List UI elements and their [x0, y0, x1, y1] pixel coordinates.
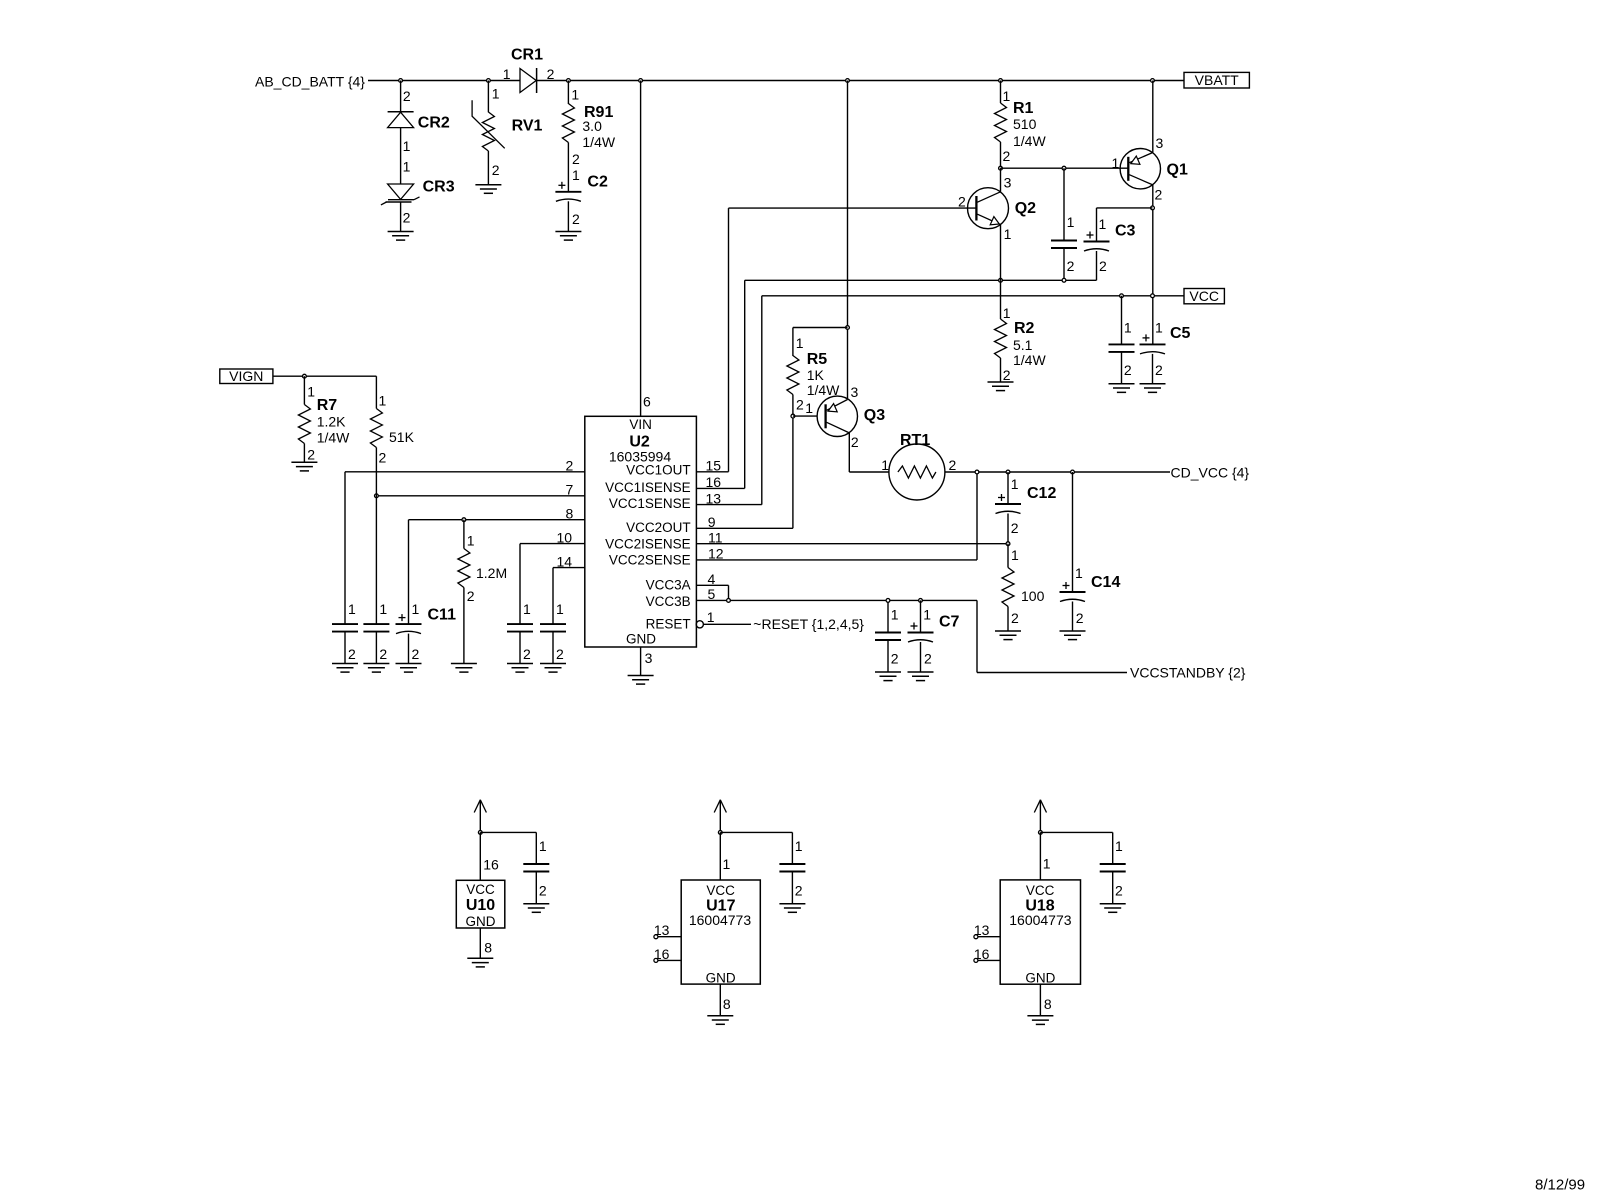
junction on VBATT rail: [399, 79, 403, 83]
wire U18 pin 13: [974, 935, 978, 939]
svg-text:2: 2: [1124, 362, 1132, 378]
wire cap (C3 companion) pin1 lead: [1063, 168, 1065, 240]
svg-text:16: 16: [483, 856, 499, 872]
svg-text:VCC: VCC: [706, 883, 735, 898]
svg-text:C2: C2: [587, 174, 608, 191]
junction U10 VCC node: [478, 831, 482, 835]
capacitor (decoupling, plain): [363, 623, 389, 625]
svg-text:1/4W: 1/4W: [582, 134, 615, 150]
resistor R91: [567, 81, 569, 105]
svg-text:12: 12: [708, 546, 724, 562]
svg-text:13: 13: [654, 922, 670, 938]
wire C5 pin2 lead: [1152, 354, 1154, 384]
svg-text:510: 510: [1013, 116, 1037, 132]
svg-text:16: 16: [654, 946, 670, 962]
junction cap bottom tap: [1062, 278, 1066, 282]
svg-text:1/4W: 1/4W: [1013, 133, 1046, 149]
junction Q2 emitter: [999, 278, 1003, 282]
wire U10 pin 16: [479, 832, 481, 880]
junction 1.2M tap on pin 8 wire: [462, 518, 466, 522]
wire U2 pin 11 (VCC2ISENSE to C12 node): [696, 543, 1008, 545]
wire U2 pin 4 (VCC3A): [696, 584, 728, 586]
wire Q2 base: [729, 207, 977, 209]
svg-text:C11: C11: [428, 607, 457, 624]
svg-text:1: 1: [1155, 320, 1163, 336]
svg-text:Q3: Q3: [864, 407, 885, 424]
capacitor C7 companion (plain): [875, 632, 901, 634]
svg-text:2: 2: [1099, 258, 1107, 274]
svg-text:1: 1: [523, 601, 531, 617]
ground below U10: [467, 957, 493, 959]
wire U10 pin 8: [479, 928, 481, 958]
capacitor C7 (polarized): [908, 632, 934, 634]
ground below R2: [988, 381, 1014, 383]
junction U18 VCC node: [1039, 831, 1043, 835]
svg-text:2: 2: [1067, 258, 1075, 274]
ground below RV1: [475, 184, 501, 186]
svg-text:CR1: CR1: [511, 47, 543, 64]
svg-text:5: 5: [708, 586, 716, 602]
svg-text:~RESET {1,2,4,5}: ~RESET {1,2,4,5}: [753, 616, 864, 632]
wire RESET pin with bubble: [696, 621, 703, 628]
svg-text:8: 8: [723, 996, 731, 1012]
svg-text:2: 2: [467, 588, 475, 604]
svg-text:1: 1: [1099, 216, 1107, 232]
capacitor C11 (polarized): [396, 623, 422, 625]
wire to U17 decoupling cap: [720, 831, 792, 833]
svg-text:16: 16: [974, 946, 990, 962]
resistor R5: [793, 327, 848, 329]
svg-text:1: 1: [1067, 214, 1075, 230]
svg-text:1: 1: [467, 532, 475, 548]
node VCC box: [1184, 289, 1224, 304]
ground below U18 cap: [1100, 903, 1126, 905]
node VIGN box: [220, 369, 273, 384]
svg-text:C7: C7: [939, 614, 960, 631]
svg-text:1: 1: [1075, 565, 1083, 581]
diode CR2: [388, 111, 414, 113]
ground below U17 cap: [779, 903, 805, 905]
svg-text:2: 2: [1003, 367, 1011, 383]
junction cap tap on Q1 base wire: [1062, 166, 1066, 170]
svg-text:GND: GND: [626, 632, 656, 647]
svg-text:1: 1: [805, 400, 813, 416]
junction on VBATT rail: [999, 79, 1003, 83]
capacitor C12 (polarized): [995, 503, 1021, 505]
ground below C5 plain: [1109, 383, 1135, 385]
svg-text:2: 2: [1011, 610, 1019, 626]
transistor Q3 (PNP): [817, 396, 857, 436]
svg-text:1: 1: [1004, 226, 1012, 242]
svg-text:1/4W: 1/4W: [317, 430, 350, 446]
wire U2 pin 14: [553, 567, 585, 569]
svg-text:1: 1: [796, 335, 804, 351]
svg-text:2: 2: [348, 646, 356, 662]
wire AB_CD_BATT rail left segment: [368, 80, 520, 82]
junction pin4/pin5 tie: [727, 599, 731, 603]
ground below C7 plain: [875, 671, 901, 673]
ground below 100 ohm: [995, 630, 1021, 632]
wire U18 pin 1: [1039, 832, 1041, 880]
wire U17 pin 1: [719, 832, 721, 880]
ground below U2: [628, 675, 654, 677]
capacitor C3: [1084, 241, 1110, 243]
svg-text:VIN: VIN: [629, 417, 652, 432]
svg-text:VBATT: VBATT: [1195, 72, 1240, 88]
wire U17 pin 13: [654, 935, 658, 939]
capacitor U17 decoupling: [779, 863, 805, 865]
ground below cap: [507, 663, 533, 665]
svg-text:1: 1: [707, 609, 715, 625]
ground below C5: [1140, 383, 1166, 385]
wire AB_CD_BATT rail right segment to VBATT: [537, 80, 1184, 82]
wire VIN line (rail to U2 pin 6): [640, 81, 642, 417]
wire cap pin2 lead: [375, 632, 377, 664]
svg-text:1K: 1K: [807, 367, 825, 383]
svg-text:5.1: 5.1: [1013, 337, 1033, 353]
svg-text:Q2: Q2: [1015, 200, 1036, 217]
wire U2 pin 2: [345, 471, 585, 473]
svg-text:CD_VCC {4}: CD_VCC {4}: [1171, 465, 1250, 481]
wire U2 pin 5 (VCC3B to VCCSTANDBY): [696, 599, 977, 601]
svg-text:2: 2: [795, 883, 803, 899]
svg-text:2: 2: [891, 651, 899, 667]
junction on VBATT rail: [1151, 79, 1155, 83]
ground below U17: [707, 1015, 733, 1017]
svg-text:2: 2: [572, 211, 580, 227]
svg-text:2: 2: [1003, 148, 1011, 164]
wire U2 pin 12 (VCC2SENSE to CD_VCC): [696, 559, 977, 561]
wire C14 pin1 lead: [1072, 472, 1074, 592]
svg-text:2: 2: [403, 210, 411, 226]
junction C5 polarized tap: [1151, 294, 1155, 298]
wire U17 pin 8: [719, 984, 721, 1016]
svg-text:1: 1: [379, 392, 387, 408]
wire Q3 base: [793, 415, 817, 417]
svg-text:VCCSTANDBY {2}: VCCSTANDBY {2}: [1130, 665, 1246, 681]
wire rail to R5/Q3 collector: [847, 81, 849, 399]
svg-text:8: 8: [1044, 996, 1052, 1012]
IC U17 body: [681, 880, 760, 984]
svg-text:2: 2: [556, 646, 564, 662]
wire C7 pin1 lead: [920, 600, 922, 632]
power symbol VCC arrow (U17): [714, 800, 720, 813]
capacitor (decoupling, plain): [540, 623, 566, 625]
svg-text:C5: C5: [1170, 325, 1191, 342]
svg-text:2: 2: [379, 646, 387, 662]
wire cap pin2 lead: [1112, 872, 1114, 904]
svg-text:3: 3: [1156, 135, 1164, 151]
svg-text:2: 2: [539, 883, 547, 899]
IC U2 body: [585, 416, 697, 647]
svg-text:C14: C14: [1091, 574, 1120, 591]
resistor 1.2M: [463, 520, 465, 549]
wire U18 pin 16: [974, 958, 978, 962]
wire cap pin2 lead: [344, 632, 346, 664]
svg-text:GND: GND: [466, 914, 496, 929]
wire cap pin2 lead: [791, 872, 793, 904]
wire C7 pin2 lead: [920, 642, 922, 672]
svg-text:4: 4: [708, 571, 716, 587]
wire Q2 emitter lead: [1000, 225, 1002, 281]
junction on VBATT rail: [846, 79, 850, 83]
svg-text:VIGN: VIGN: [229, 368, 263, 384]
wire VCC3B node to VCCSTANDBY: [976, 600, 978, 672]
svg-text:1: 1: [348, 601, 356, 617]
wire U17 pin 16: [654, 958, 658, 962]
svg-text:3: 3: [1004, 174, 1012, 190]
svg-text:1/4W: 1/4W: [1013, 352, 1046, 368]
svg-text:2: 2: [796, 397, 804, 413]
svg-text:1: 1: [891, 607, 899, 623]
capacitor U18 decoupling: [1100, 863, 1126, 865]
svg-text:2: 2: [523, 646, 531, 662]
svg-text:VCC3B: VCC3B: [646, 594, 691, 609]
wire R1 bottom to Q1 base node: [1000, 142, 1002, 168]
wire VIGN to 51K top: [273, 375, 377, 377]
wire U2 pin 13 (VCC1SENSE to VCC): [696, 504, 761, 506]
svg-text:1: 1: [1003, 305, 1011, 321]
svg-text:RV1: RV1: [512, 118, 543, 135]
ground below R7: [291, 461, 317, 463]
ground below cap: [363, 663, 389, 665]
svg-text:14: 14: [557, 553, 573, 569]
wire C12 pin2 to resistor node: [1007, 514, 1009, 544]
svg-text:2: 2: [1155, 362, 1163, 378]
svg-text:1: 1: [571, 86, 579, 102]
svg-text:R5: R5: [807, 351, 828, 368]
svg-text:9: 9: [708, 514, 716, 530]
svg-text:1: 1: [881, 457, 889, 473]
junction C12 tap: [1006, 470, 1010, 474]
svg-text:13: 13: [706, 490, 722, 506]
wire Q2 collector lead: [1000, 168, 1002, 192]
svg-text:1: 1: [1124, 320, 1132, 336]
transistor Q1 (PNP): [1120, 149, 1160, 189]
svg-text:RT1: RT1: [900, 432, 930, 449]
wire R91-C2: [567, 143, 569, 192]
svg-text:2: 2: [1155, 187, 1163, 203]
ground below C7: [908, 671, 934, 673]
wire U2 GND pin 3: [640, 647, 642, 676]
wire Q1 pin2 down (emitter line): [1152, 185, 1154, 345]
ground below C2: [555, 231, 581, 233]
svg-text:8/12/99: 8/12/99: [1535, 1177, 1585, 1194]
wire C14 pin2 lead: [1072, 602, 1074, 632]
svg-text:15: 15: [706, 458, 722, 474]
svg-text:2: 2: [1011, 520, 1019, 536]
svg-text:VCC: VCC: [466, 882, 495, 897]
svg-text:CR2: CR2: [418, 115, 450, 132]
svg-text:VCC2OUT: VCC2OUT: [626, 520, 691, 535]
svg-text:GND: GND: [1025, 971, 1055, 986]
ground below CR3: [388, 231, 414, 233]
svg-text:R1: R1: [1013, 100, 1034, 117]
svg-text:2: 2: [547, 66, 555, 82]
wire C5 plain pin1 lead: [1121, 296, 1123, 345]
wire C3 to Q1 pin2 line: [1097, 207, 1153, 209]
svg-text:2: 2: [566, 458, 574, 474]
ground below U18: [1027, 1015, 1053, 1017]
wire Q1 pin3 to rail: [1152, 81, 1154, 153]
svg-text:U10: U10: [466, 897, 495, 914]
capacitor C2: [555, 191, 581, 193]
svg-text:2: 2: [412, 646, 420, 662]
svg-text:VCC2ISENSE: VCC2ISENSE: [605, 536, 691, 551]
capacitor C5 companion (plain): [1109, 343, 1135, 345]
svg-text:1: 1: [723, 856, 731, 872]
junction R1 bottom / Q2 collector / Q1 base: [999, 166, 1003, 170]
svg-text:R7: R7: [317, 397, 338, 414]
wire U2 pin 15 (VCC1OUT to Q2 base): [696, 471, 728, 473]
svg-text:Q1: Q1: [1167, 162, 1188, 179]
wire R5 pin2 lead: [792, 395, 794, 417]
ground below cap: [540, 663, 566, 665]
wire R2 pin2 lead: [1000, 358, 1002, 382]
ground below C11: [396, 663, 422, 665]
svg-text:1: 1: [379, 601, 387, 617]
junction C12 bottom / pin 11: [1006, 542, 1010, 546]
wire cap pin2 lead: [535, 872, 537, 904]
svg-text:2: 2: [572, 151, 580, 167]
wire Q3 emitter to RT1: [848, 433, 850, 472]
svg-text:R2: R2: [1014, 320, 1035, 337]
capacitor C14 (polarized): [1060, 591, 1086, 593]
wire CR2-CR3: [400, 128, 402, 184]
transistor Q2 (NPN): [968, 188, 1009, 229]
resistor R2: [1000, 280, 1002, 319]
junction C14 tap: [1071, 470, 1075, 474]
junction 51K bottom / pin 7: [375, 494, 379, 498]
svg-text:1: 1: [307, 384, 315, 400]
wire 1.2M pin2 lead: [463, 588, 465, 664]
capacitor U10 decoupling: [523, 863, 549, 865]
svg-text:3.0: 3.0: [582, 118, 602, 134]
IC U18 body: [1000, 880, 1080, 984]
svg-text:1: 1: [1011, 547, 1019, 563]
wire U2 pin 8: [409, 519, 585, 521]
wire VCC net: [762, 295, 1184, 297]
wire Q1 base: [1001, 167, 1129, 169]
wire cap pin2 lead: [552, 632, 554, 664]
diode CR1: [520, 69, 536, 93]
svg-text:C3: C3: [1115, 223, 1136, 240]
svg-text:VCC1OUT: VCC1OUT: [626, 463, 691, 478]
junction on VBATT rail: [639, 79, 643, 83]
svg-text:VCC1SENSE: VCC1SENSE: [609, 496, 691, 511]
svg-text:1: 1: [795, 838, 803, 854]
svg-text:1: 1: [403, 138, 411, 154]
junction R5 bottom / Q3 base / pin 9: [791, 414, 795, 418]
junction R7 tap: [303, 374, 307, 378]
svg-text:1: 1: [503, 66, 511, 82]
svg-text:3: 3: [851, 384, 859, 400]
power symbol VCC arrow (U10): [474, 800, 480, 813]
wire RT1 to CD_VCC: [945, 471, 1170, 473]
svg-text:1.2K: 1.2K: [317, 413, 346, 429]
diode CR3 (zener): [388, 184, 414, 199]
wire C7 plain pin2 lead: [887, 640, 889, 672]
junction C5 plain tap: [1120, 294, 1124, 298]
svg-text:2: 2: [949, 457, 957, 473]
svg-text:7: 7: [566, 482, 574, 498]
svg-text:2: 2: [1076, 610, 1084, 626]
wire R7 pin2 lead: [303, 444, 305, 463]
node VBATT box: [1184, 72, 1249, 88]
svg-text:16: 16: [706, 474, 722, 490]
svg-text:1: 1: [1115, 838, 1123, 854]
resistor 100: [1007, 544, 1009, 568]
svg-text:1: 1: [1112, 155, 1120, 171]
svg-text:1: 1: [492, 85, 500, 101]
svg-text:6: 6: [643, 394, 651, 410]
wire U18 pin 8: [1039, 984, 1041, 1016]
svg-text:GND: GND: [706, 971, 736, 986]
svg-text:1: 1: [923, 607, 931, 623]
wire C2 pin2 lead: [567, 201, 569, 231]
svg-text:16004773: 16004773: [1009, 912, 1072, 928]
svg-text:13: 13: [974, 922, 990, 938]
power symbol VCC arrow (U18): [1034, 800, 1040, 813]
capacitor (decoupling, plain): [507, 623, 533, 625]
varistor RV1: [482, 112, 494, 151]
wire C11 pin2 lead: [408, 634, 410, 664]
wire RV1 pin2 lead: [487, 151, 489, 185]
svg-text:2: 2: [1115, 883, 1123, 899]
svg-text:CR3: CR3: [423, 179, 455, 196]
svg-text:2: 2: [307, 446, 315, 462]
svg-text:2: 2: [403, 88, 411, 104]
junction pin12 riser tap: [975, 470, 979, 474]
wire Q2 emitter node (pin16 riser to C3 bottom): [745, 279, 1097, 281]
svg-text:8: 8: [566, 506, 574, 522]
svg-text:2: 2: [379, 449, 387, 465]
junction on VBATT rail: [487, 79, 491, 83]
wire U2 pin 16 (VCC1ISENSE to Q2 emitter node): [696, 487, 744, 489]
svg-text:1: 1: [403, 159, 411, 175]
svg-text:RESET: RESET: [646, 617, 691, 632]
ground below cap: [332, 663, 358, 665]
junction on VBATT rail: [567, 79, 571, 83]
svg-text:100: 100: [1021, 588, 1045, 604]
svg-text:51K: 51K: [389, 429, 415, 445]
junction C7 plain tap: [886, 599, 890, 603]
svg-text:2: 2: [924, 651, 932, 667]
svg-text:10: 10: [557, 529, 573, 545]
wire C12 pin1 lead: [1007, 472, 1009, 504]
wire 100 ohm pin2 lead: [1007, 607, 1009, 632]
junction C7 tap: [919, 599, 923, 603]
svg-text:1.2M: 1.2M: [476, 565, 507, 581]
svg-text:1: 1: [1043, 856, 1051, 872]
svg-text:VCC: VCC: [1026, 883, 1055, 898]
svg-text:C12: C12: [1027, 485, 1056, 502]
resistor R1: [1000, 81, 1002, 104]
svg-text:2: 2: [851, 434, 859, 450]
svg-text:VCC1ISENSE: VCC1ISENSE: [605, 480, 691, 495]
svg-text:1: 1: [412, 601, 420, 617]
svg-text:16004773: 16004773: [689, 912, 752, 928]
wire C7 plain pin1 lead: [887, 600, 889, 632]
svg-text:3: 3: [645, 650, 653, 666]
svg-text:VCC2SENSE: VCC2SENSE: [609, 553, 691, 568]
wire RV1 pin1 lead: [487, 81, 489, 113]
thermistor RT1: [889, 444, 945, 500]
svg-text:1: 1: [572, 167, 580, 183]
svg-text:8: 8: [484, 940, 492, 956]
svg-text:VCC3A: VCC3A: [646, 578, 691, 593]
wire C5 plain pin2 lead: [1121, 352, 1123, 384]
